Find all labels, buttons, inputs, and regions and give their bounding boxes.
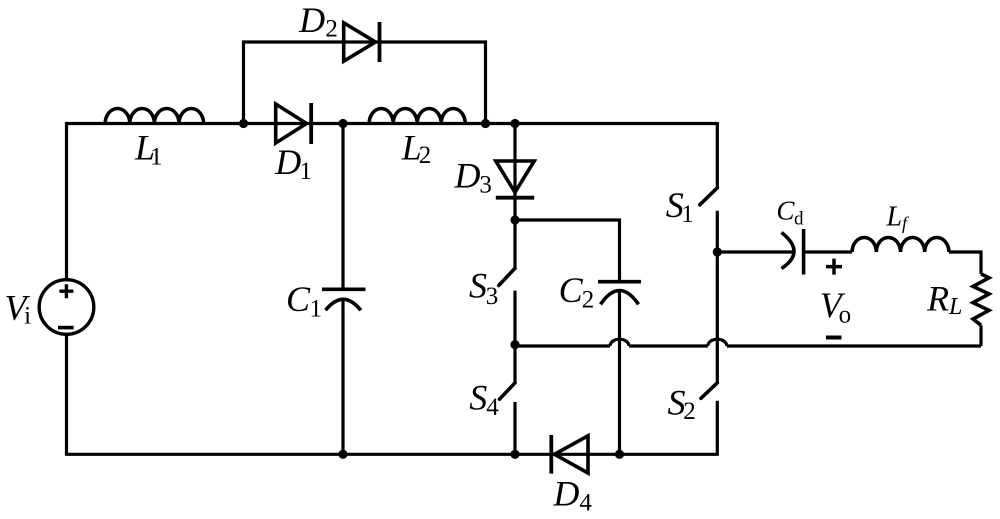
svg-text:D: D xyxy=(298,0,325,40)
svg-text:R: R xyxy=(926,278,949,318)
svg-text:C: C xyxy=(286,279,311,319)
svg-text:4: 4 xyxy=(579,490,592,517)
svg-text:3: 3 xyxy=(486,283,499,310)
svg-text:2: 2 xyxy=(582,286,595,313)
svg-text:D: D xyxy=(274,142,301,182)
svg-text:D: D xyxy=(552,473,579,513)
svg-text:1: 1 xyxy=(150,144,163,171)
svg-text:3: 3 xyxy=(479,172,492,199)
svg-text:i: i xyxy=(24,303,31,330)
svg-text:o: o xyxy=(839,302,852,329)
svg-text:4: 4 xyxy=(486,394,499,421)
svg-text:1: 1 xyxy=(300,158,313,185)
svg-text:C: C xyxy=(776,196,795,226)
svg-text:D: D xyxy=(454,155,481,195)
svg-text:L: L xyxy=(886,202,903,233)
svg-text:1: 1 xyxy=(310,296,323,323)
svg-text:S: S xyxy=(469,378,487,418)
svg-text:2: 2 xyxy=(325,16,338,43)
svg-text:L: L xyxy=(948,294,962,320)
svg-text:f: f xyxy=(902,213,910,233)
svg-text:d: d xyxy=(794,208,804,229)
svg-text:1: 1 xyxy=(681,201,694,228)
svg-text:2: 2 xyxy=(683,398,696,425)
svg-text:C: C xyxy=(559,270,584,310)
svg-text:2: 2 xyxy=(419,142,432,169)
svg-text:S: S xyxy=(469,266,487,306)
